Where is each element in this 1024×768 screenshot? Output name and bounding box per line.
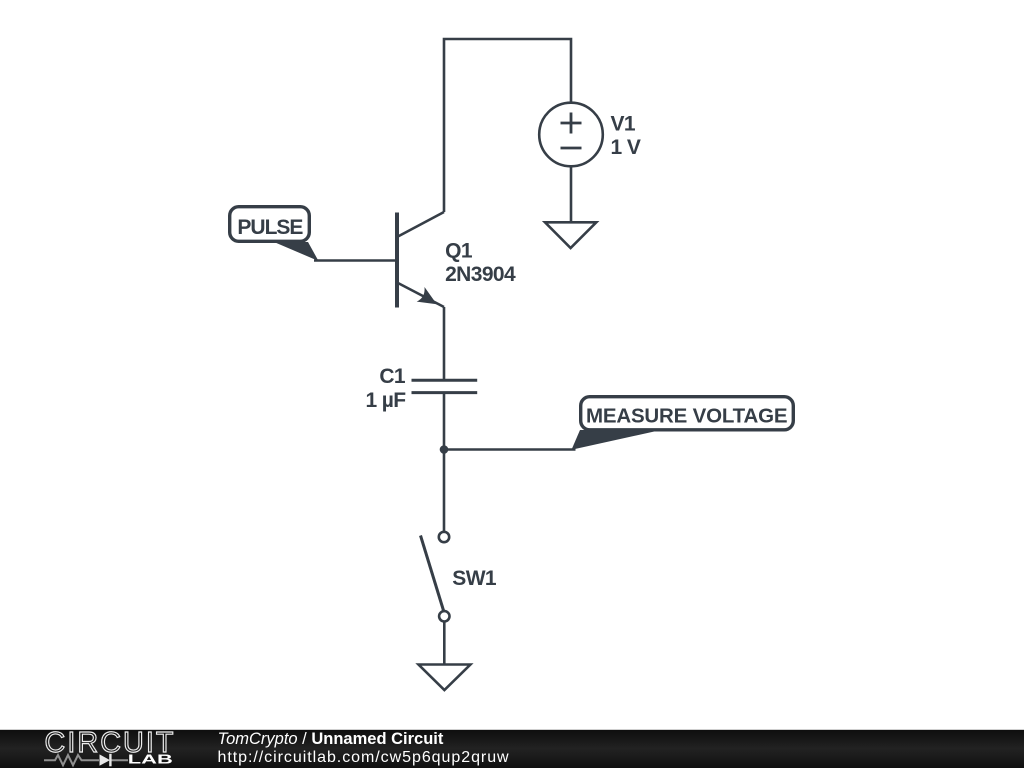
svg-text:1 V: 1 V — [611, 136, 641, 159]
svg-text:MEASURE VOLTAGE: MEASURE VOLTAGE — [586, 405, 788, 428]
svg-text:C1: C1 — [379, 365, 406, 388]
svg-text:TomCrypto / Unnamed Circuit: TomCrypto / Unnamed Circuit — [218, 730, 444, 748]
svg-text:SW1: SW1 — [452, 567, 497, 590]
svg-text:V1: V1 — [611, 112, 636, 135]
svg-text:Q1: Q1 — [445, 239, 473, 262]
svg-text:2N3904: 2N3904 — [445, 263, 516, 286]
svg-text:http://circuitlab.com/cw5p6qup: http://circuitlab.com/cw5p6qup2qruw — [218, 749, 510, 766]
svg-text:PULSE: PULSE — [237, 216, 303, 239]
svg-text:1 µF: 1 µF — [365, 389, 406, 412]
svg-text:LAB: LAB — [128, 752, 173, 767]
